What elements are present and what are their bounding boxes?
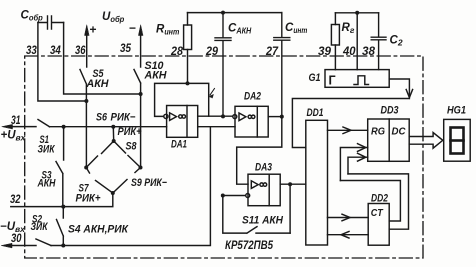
- node fork: [112, 139, 116, 143]
- HG1 seven segment digit: [451, 128, 464, 154]
- capacitor C_int: [274, 13, 290, 117]
- pin number 35: [120, 41, 131, 55]
- G1 pulse symbol: [354, 76, 369, 85]
- pin number 36: [75, 43, 86, 57]
- svg-text:DA3: DA3: [255, 162, 272, 174]
- wire pin33 from C_obr down and right to S5 node: [38, 23, 87, 102]
- svg-text:27: 27: [265, 44, 279, 58]
- -Uvx label: [0, 221, 26, 234]
- svg-text:RG: RG: [371, 126, 385, 138]
- pin 32 stub: [11, 206, 64, 208]
- switch S6 label: [96, 112, 108, 124]
- svg-text:33: 33: [26, 43, 37, 57]
- DD2 CT text: [371, 207, 384, 219]
- capacitor C_obr: [38, 16, 64, 29]
- svg-text:30: 30: [11, 231, 22, 245]
- svg-text:HG1: HG1: [447, 105, 466, 117]
- resistor R_g label: [342, 22, 355, 35]
- node S10/pin34 junction: [139, 92, 143, 96]
- svg-text:DC: DC: [392, 126, 406, 138]
- svg-text:АКН: АКН: [144, 70, 168, 82]
- pin number 27: [265, 44, 279, 58]
- wire clock rail top: [335, 12, 378, 14]
- wire C_akn node to DA3 inverting input: [223, 195, 246, 197]
- resistor R_int label: [156, 24, 180, 37]
- terminal arrow pin36 (+U_obr): [86, 34, 88, 67]
- source U_obr label: [102, 11, 124, 24]
- wire DD1 to DD3 with arrow: [328, 129, 368, 131]
- wire pin30 rail to DA1 lower-right drop: [51, 127, 210, 246]
- op-amp DA3 label: [255, 162, 272, 174]
- HG1 label: [447, 105, 466, 117]
- terminal arrow pin35 (-U_obr): [140, 34, 142, 67]
- wire DA1 output to DA2 input: [198, 115, 233, 117]
- pin number 30: [11, 231, 22, 245]
- pin number 39: [318, 44, 331, 58]
- node bottom diamond: [111, 191, 115, 195]
- switch S1 label: [38, 134, 56, 156]
- pin number 40: [342, 44, 356, 58]
- switch S9: [113, 168, 141, 194]
- svg-text:34: 34: [50, 43, 61, 57]
- wire CT to DD1 with arrow: [328, 234, 369, 236]
- svg-text:40: 40: [342, 44, 356, 58]
- svg-text:РИК+: РИК+: [76, 193, 102, 205]
- svg-text:−: −: [129, 21, 136, 35]
- node DA2out/C_int: [280, 115, 284, 119]
- switch S5: [80, 70, 86, 168]
- switch S4 label: [68, 224, 129, 236]
- wire R_g top: [334, 13, 336, 70]
- op-amp DA2 label: [244, 91, 261, 103]
- G1 gamma symbol: [329, 74, 336, 88]
- svg-text:DD3: DD3: [381, 105, 399, 117]
- svg-text:S6: S6: [96, 112, 108, 124]
- small direction arrow at DA1 output corner: [210, 89, 215, 96]
- switch S10: [134, 70, 141, 168]
- wire top analog rail: [188, 12, 282, 14]
- +Uvx label: [1, 130, 27, 143]
- wire DA1 feedback loop: [155, 83, 209, 116]
- switch S3: [56, 127, 64, 207]
- wire DA1 lower throughput: [198, 126, 235, 128]
- wire CT to DD3 lower arrow: [348, 157, 368, 174]
- DD3 RG text: [371, 126, 385, 138]
- switch S7: [86, 168, 113, 194]
- switch S5 label: [86, 68, 110, 90]
- svg-text:DA2: DA2: [244, 91, 261, 103]
- node clock rail pin40: [355, 11, 359, 15]
- resistor R_int: [184, 25, 192, 50]
- capacitor C_obr label: [21, 10, 43, 23]
- svg-text:Г: Г: [329, 74, 336, 88]
- generator G1: [325, 70, 389, 88]
- svg-text:ЗИК: ЗИК: [38, 144, 56, 156]
- svg-text:CT: CT: [371, 207, 384, 219]
- svg-text:38: 38: [362, 44, 375, 58]
- switch S6: [86, 141, 114, 168]
- U_obr plus sign: [90, 23, 97, 37]
- capacitor C_2: [371, 13, 386, 70]
- capacitor C_int label: [285, 22, 308, 35]
- pin number 34: [50, 43, 61, 57]
- svg-text:ЗИК: ЗИК: [31, 221, 49, 233]
- node S1/S3 junction: [62, 125, 66, 129]
- pin number 32: [10, 192, 21, 206]
- pin number 33: [26, 43, 37, 57]
- svg-text:G1: G1: [309, 72, 321, 84]
- label RIK- (S6): [111, 112, 137, 124]
- logic block DD1: [306, 120, 328, 245]
- svg-text:DA1: DA1: [171, 139, 187, 151]
- label RIK+ (S8): [118, 126, 142, 138]
- node left diamond: [84, 166, 88, 170]
- node rail/C_akn: [221, 11, 225, 15]
- svg-text:РИК−: РИК−: [111, 112, 137, 124]
- node right diamond: [139, 166, 143, 170]
- svg-text:29: 29: [205, 44, 218, 58]
- svg-text:DD2: DD2: [371, 193, 388, 205]
- wire S11 loop right: [289, 184, 291, 233]
- svg-text:S9 РИК−: S9 РИК−: [131, 177, 167, 189]
- wire DA2 output to C_int: [268, 116, 282, 118]
- DD3 DC text: [392, 126, 406, 138]
- switch S8: [114, 141, 141, 168]
- svg-text:36: 36: [75, 43, 86, 57]
- chip boundary dash-dot (KR572PV5 outline): [25, 56, 423, 258]
- switch S4: [57, 207, 64, 246]
- switch S1: [38, 120, 50, 127]
- indicator HG1: [444, 119, 471, 161]
- wire C_int node to DA3 upper input: [237, 117, 282, 185]
- resistor R_g: [331, 25, 339, 46]
- capacitor C_akn: [215, 13, 231, 117]
- svg-text:31: 31: [11, 113, 21, 127]
- wire CT to DD3 upper arrow: [340, 148, 367, 181]
- svg-text:S8: S8: [126, 141, 138, 153]
- switch S8 label: [126, 141, 138, 153]
- op-amp DA3: [248, 174, 280, 206]
- node S3/S4/pin32: [61, 205, 65, 209]
- svg-text:28: 28: [170, 44, 183, 58]
- svg-text:+: +: [90, 23, 97, 37]
- DD2 label: [371, 193, 388, 205]
- capacitor C_akn label: [228, 23, 252, 36]
- bus arrow DD3 to HG1: [409, 133, 443, 149]
- node DA3 input: [221, 194, 225, 198]
- wire pin34 from C_obr down and right to S10 node: [64, 23, 141, 95]
- wire R_int bottom to DA1 feedback: [187, 50, 189, 84]
- switch S2: [36, 239, 51, 246]
- switch S9 label: [131, 177, 167, 189]
- switch S7 label: [76, 183, 102, 205]
- op-amp DA1 label: [171, 139, 187, 151]
- svg-text:КР572ПВ5: КР572ПВ5: [225, 240, 274, 252]
- svg-text:S4 АКН,РИК: S4 АКН,РИК: [68, 224, 129, 236]
- wire clock bus to DD1: [292, 99, 409, 148]
- wire S11 loop left: [223, 196, 247, 234]
- pin number 29: [205, 44, 218, 58]
- input terminal +Uvx arrow pin31: [11, 126, 36, 128]
- switch S2 label: [31, 214, 49, 234]
- svg-text:35: 35: [120, 41, 131, 55]
- switch S11: [247, 227, 290, 234]
- node S1/fork junction: [111, 125, 115, 129]
- DD3 label: [381, 105, 399, 117]
- capacitor C_2 label: [390, 35, 403, 48]
- register-decoder DD3: [368, 119, 410, 161]
- chip type label KR572PV5: [225, 240, 274, 252]
- wire DA3 output to DD1: [280, 183, 306, 185]
- wire R_int top to rail: [187, 13, 189, 25]
- wire pin40 to G1: [356, 13, 358, 70]
- wire DD1 to CT with arrow: [328, 217, 369, 219]
- logic block DD1 label: [307, 107, 324, 119]
- counter DD2: [368, 204, 389, 246]
- svg-text:39: 39: [318, 44, 331, 58]
- svg-text:АКН: АКН: [37, 178, 57, 190]
- op-amp DA1: [167, 106, 198, 138]
- node feedback/R_int: [186, 81, 190, 85]
- svg-text:АКН: АКН: [86, 78, 110, 90]
- pin number 28: [170, 44, 183, 58]
- switch S10 label: [144, 60, 168, 82]
- op-amp DA2: [235, 106, 268, 137]
- U_obr minus sign: [129, 21, 136, 35]
- svg-text:DD1: DD1: [307, 107, 324, 119]
- node S4/pin30: [61, 244, 65, 248]
- node S5/pin33 junction: [84, 99, 88, 103]
- generator G1 label: [309, 72, 321, 84]
- switch S11 label: [242, 215, 284, 227]
- switch S3 label: [37, 170, 57, 190]
- wire fork stub: [112, 127, 114, 141]
- input terminal -Uvx arrow pin30: [10, 245, 36, 247]
- pin number 38: [362, 44, 375, 58]
- node DA3out/S11: [288, 182, 292, 186]
- svg-text:32: 32: [10, 192, 21, 206]
- pin number 31: [11, 113, 21, 127]
- node DA1out/C_akn: [221, 114, 225, 118]
- wire bottom node to pin32 rail: [63, 193, 113, 207]
- svg-text:S11 АКН: S11 АКН: [242, 215, 284, 227]
- wire S1 output to DA1 lower input: [50, 126, 167, 128]
- svg-text:РИК+: РИК+: [118, 126, 142, 138]
- wire G1 output to clock bus: [389, 79, 409, 97]
